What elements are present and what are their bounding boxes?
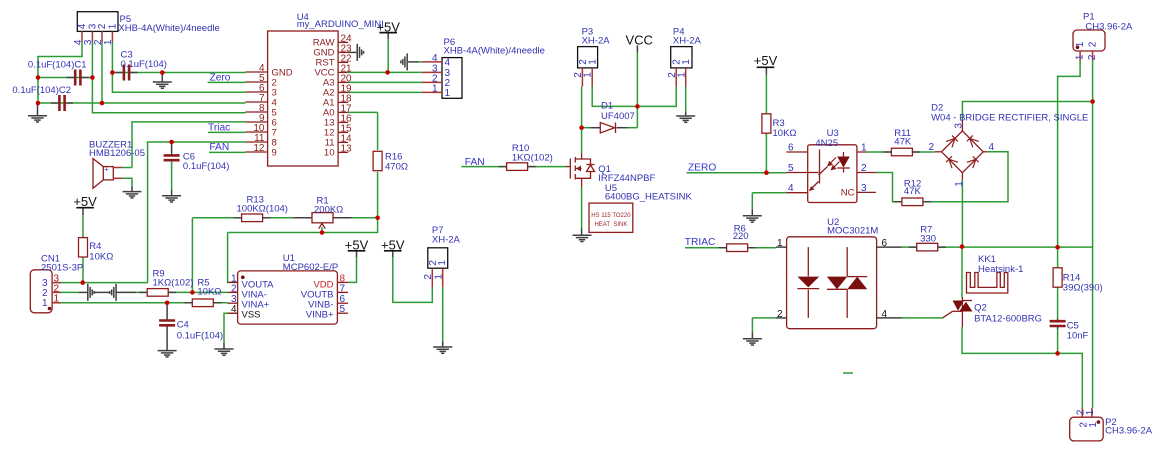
svg-text:3: 3 <box>954 123 965 129</box>
svg-text:XHB-4A(White)/4needle: XHB-4A(White)/4needle <box>118 23 219 34</box>
svg-text:4: 4 <box>788 183 794 194</box>
svg-text:3: 3 <box>861 183 867 194</box>
svg-text:XH-2A: XH-2A <box>673 36 702 47</box>
svg-text:1: 1 <box>583 72 594 78</box>
svg-text:VINB+: VINB+ <box>306 310 334 321</box>
svg-text:W04 - BRIDGE RECTIFIER, SINGLE: W04 - BRIDGE RECTIFIER, SINGLE <box>931 113 1088 124</box>
svg-text:2: 2 <box>928 142 934 153</box>
svg-text:1: 1 <box>1085 409 1096 415</box>
svg-text:6: 6 <box>882 238 888 249</box>
svg-text:my_ARDUINO_MINI: my_ARDUINO_MINI <box>297 19 384 30</box>
svg-text:10KΩ: 10KΩ <box>773 128 797 139</box>
svg-text:ZERO: ZERO <box>688 163 716 174</box>
svg-text:6: 6 <box>788 143 794 154</box>
svg-text:FAN: FAN <box>465 157 485 168</box>
svg-text:1: 1 <box>103 39 114 45</box>
svg-text:7: 7 <box>340 283 346 294</box>
svg-text:2: 2 <box>54 283 60 294</box>
svg-text:Triac: Triac <box>208 122 230 133</box>
svg-text:XH-2A: XH-2A <box>582 36 611 47</box>
svg-text:4: 4 <box>231 304 237 315</box>
svg-text:1: 1 <box>433 274 444 280</box>
svg-text:470Ω: 470Ω <box>385 162 408 173</box>
svg-text:1: 1 <box>445 88 451 99</box>
svg-text:1: 1 <box>54 294 60 305</box>
svg-text:1: 1 <box>108 23 119 29</box>
svg-text:MCP602-E/P: MCP602-E/P <box>283 262 338 273</box>
svg-text:12: 12 <box>253 143 265 154</box>
svg-text:VOUTB: VOUTB <box>301 289 334 300</box>
svg-text:4: 4 <box>77 23 88 29</box>
svg-text:1: 1 <box>432 84 438 95</box>
svg-text:+5V: +5V <box>754 53 778 68</box>
svg-text:2: 2 <box>1087 54 1098 60</box>
svg-text:0.1uF(104): 0.1uF(104) <box>121 59 167 70</box>
svg-text:100KΩ(104): 100KΩ(104) <box>237 204 288 215</box>
svg-text:XH-2A: XH-2A <box>432 234 461 245</box>
svg-text:0.1uF(104): 0.1uF(104) <box>177 331 223 342</box>
svg-text:1: 1 <box>681 59 692 65</box>
svg-text:5: 5 <box>340 304 346 315</box>
svg-text:VSS: VSS <box>242 310 261 321</box>
svg-text:1: 1 <box>437 260 448 266</box>
svg-text:FAN: FAN <box>209 142 229 153</box>
svg-text:1: 1 <box>861 143 867 154</box>
svg-text:TRIAC: TRIAC <box>685 237 716 248</box>
svg-text:HMB1206-05: HMB1206-05 <box>89 148 145 159</box>
svg-text:0.1uF(104)C1: 0.1uF(104)C1 <box>28 60 87 71</box>
svg-text:BTA12-600BRG: BTA12-600BRG <box>974 314 1042 325</box>
svg-text:HS 115 TO220: HS 115 TO220 <box>591 213 631 219</box>
svg-text:Zero: Zero <box>210 73 231 84</box>
svg-text:0.1uF(104): 0.1uF(104) <box>183 161 229 172</box>
svg-text:4: 4 <box>445 57 451 68</box>
svg-text:+: + <box>104 165 109 174</box>
svg-text:47K: 47K <box>894 136 912 147</box>
svg-text:2: 2 <box>42 288 48 299</box>
svg-text:1: 1 <box>1075 54 1086 60</box>
svg-text:2: 2 <box>861 163 867 174</box>
svg-text:+5V: +5V <box>73 194 97 209</box>
svg-text:330: 330 <box>920 234 936 245</box>
svg-text:4: 4 <box>432 53 438 64</box>
svg-text:6400BG_HEATSINK: 6400BG_HEATSINK <box>605 192 693 203</box>
svg-text:VCC: VCC <box>626 33 653 48</box>
svg-text:4: 4 <box>73 39 84 45</box>
svg-text:C4: C4 <box>177 320 189 331</box>
svg-text:10nF: 10nF <box>1067 331 1089 342</box>
svg-text:1: 1 <box>677 72 688 78</box>
svg-text:4N25: 4N25 <box>815 138 838 149</box>
svg-text:10: 10 <box>324 148 335 159</box>
svg-text:+5V: +5V <box>345 237 369 252</box>
svg-text:5: 5 <box>788 163 794 174</box>
svg-text:2501S-3P: 2501S-3P <box>41 262 83 273</box>
svg-text:4: 4 <box>882 309 888 320</box>
svg-text:2: 2 <box>777 309 783 320</box>
svg-text:NC: NC <box>841 188 855 199</box>
svg-text:47K: 47K <box>904 186 922 197</box>
svg-text:Q2: Q2 <box>974 303 987 314</box>
svg-text:2: 2 <box>1088 41 1099 47</box>
svg-text:VINA-: VINA- <box>242 289 267 300</box>
svg-text:UF4007: UF4007 <box>601 111 635 122</box>
svg-text:1: 1 <box>1075 41 1086 47</box>
svg-text:MOC3021M: MOC3021M <box>827 226 878 237</box>
svg-text:200KΩ: 200KΩ <box>314 205 343 216</box>
svg-text:4: 4 <box>989 142 995 153</box>
svg-text:1: 1 <box>42 298 48 309</box>
svg-text:2: 2 <box>231 283 237 294</box>
svg-text:13: 13 <box>341 143 353 154</box>
svg-text:1: 1 <box>777 238 783 249</box>
svg-text:1KΩ(102): 1KΩ(102) <box>512 153 553 164</box>
svg-text:39Ω(390): 39Ω(390) <box>1063 283 1103 294</box>
svg-text:2: 2 <box>97 23 108 29</box>
svg-text:1: 1 <box>1088 422 1099 428</box>
svg-text:1KΩ(102): 1KΩ(102) <box>153 278 194 289</box>
svg-text:9: 9 <box>272 147 277 158</box>
svg-text:2: 2 <box>93 39 104 45</box>
svg-text:+5V: +5V <box>376 20 400 35</box>
svg-text:HEAT SINK: HEAT SINK <box>594 222 627 228</box>
svg-text:1: 1 <box>588 59 599 65</box>
svg-text:+5V: +5V <box>381 237 405 252</box>
svg-text:10KΩ: 10KΩ <box>197 287 221 298</box>
svg-text:10KΩ: 10KΩ <box>89 252 113 263</box>
svg-text:XHB-4A(White)/4needle: XHB-4A(White)/4needle <box>444 46 545 57</box>
svg-text:CH3.96-2A: CH3.96-2A <box>1105 426 1153 437</box>
svg-text:CH3.96-2A: CH3.96-2A <box>1085 22 1133 33</box>
svg-text:Heatsink-1: Heatsink-1 <box>978 264 1023 275</box>
svg-text:R4: R4 <box>89 241 101 252</box>
svg-text:2: 2 <box>423 274 434 280</box>
svg-text:220: 220 <box>733 231 749 242</box>
svg-text:1: 1 <box>954 181 965 187</box>
svg-text:0.1uF(104)C2: 0.1uF(104)C2 <box>12 85 71 96</box>
